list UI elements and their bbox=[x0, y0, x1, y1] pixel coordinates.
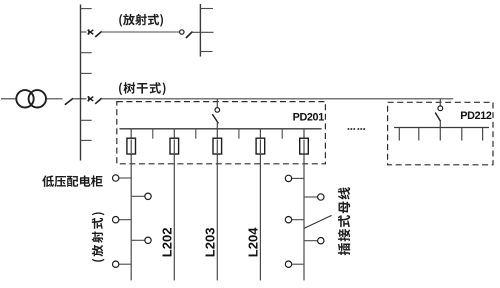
trunk line (树干式) wire bbox=[101, 98, 453, 100]
spare way tick bbox=[281, 129, 283, 139]
fuse + outgoing line (L205 feeder) bbox=[300, 129, 309, 281]
fuse + outgoing line (L204 feeder) bbox=[256, 129, 265, 281]
label low-voltage distribution cabinet bbox=[42, 175, 102, 187]
outgoing way tick bbox=[482, 128, 484, 141]
leader line to busway label bbox=[304, 215, 332, 228]
outgoing way tick bbox=[461, 128, 463, 141]
switch blade (slash) bbox=[186, 32, 193, 38]
plug-in tap circle bbox=[304, 194, 324, 200]
plug-in tap circle bbox=[113, 175, 132, 181]
wire bbox=[216, 123, 218, 129]
outgoing way tick bbox=[398, 128, 400, 141]
plug-in tap circle bbox=[131, 193, 151, 199]
distribution busbar (vertical, radial feeder) with ticks bbox=[200, 4, 213, 57]
wire bbox=[81, 31, 87, 33]
plug-in tap circle bbox=[304, 238, 324, 244]
panel PD201 dashed enclosure bbox=[117, 102, 326, 164]
spare way tick bbox=[195, 129, 197, 139]
plug-in tap circle bbox=[285, 217, 304, 223]
plug-in tap circle bbox=[285, 175, 304, 181]
disconnect switch QS1 (slash) bbox=[65, 98, 87, 105]
wire bbox=[101, 31, 179, 33]
wire bbox=[439, 121, 441, 128]
plug-in tap circle bbox=[113, 261, 132, 267]
switch blade bbox=[435, 113, 440, 122]
fuse + outgoing line (L203 feeder) bbox=[213, 129, 222, 281]
ellipsis dots (more panels) bbox=[348, 128, 365, 130]
svg-text:L204: L204 bbox=[245, 227, 260, 257]
switch blade (slash) bbox=[95, 31, 102, 37]
label (radial type, rotated) bbox=[92, 212, 105, 261]
plug-in tap circle bbox=[285, 261, 304, 267]
plug-in tap circle bbox=[113, 217, 132, 223]
spare way tick bbox=[152, 129, 154, 139]
PD201 horizontal busbar bbox=[120, 128, 322, 130]
svg-text:PD212: PD212 bbox=[460, 110, 492, 122]
panel PD212 dashed enclosure bbox=[388, 102, 493, 165]
contact circle bbox=[215, 108, 220, 113]
svg-text:L202: L202 bbox=[159, 228, 174, 258]
outgoing way tick bbox=[439, 128, 441, 141]
switch blade bbox=[212, 114, 218, 123]
contact circle bbox=[438, 106, 443, 111]
switch blade (slash) bbox=[95, 98, 102, 104]
plug-in tap circle bbox=[131, 237, 151, 243]
wire bbox=[216, 99, 218, 108]
label plug-in busway (rotated) bbox=[338, 187, 350, 255]
wire bbox=[192, 31, 214, 33]
label (radial type) bbox=[119, 14, 163, 27]
fuse + outgoing line (L201 feeder) bbox=[127, 129, 136, 281]
fuse + outgoing line (L202 feeder) bbox=[170, 129, 179, 281]
transformer T (two overlapping circles) bbox=[1, 90, 62, 107]
contact circle bbox=[180, 30, 184, 34]
svg-text:PD201: PD201 bbox=[293, 112, 325, 124]
low-voltage switchboard busbar (vertical) with stub ticks bbox=[81, 5, 92, 161]
circuit breaker QF2 (x symbol) bbox=[88, 96, 94, 101]
PD212 horizontal busbar bbox=[394, 127, 489, 129]
wire bbox=[439, 99, 441, 106]
circuit breaker QF1 (x symbol) bbox=[88, 29, 94, 34]
outgoing way tick bbox=[418, 128, 420, 141]
svg-text:L203: L203 bbox=[202, 228, 217, 258]
label (trunk type) bbox=[119, 82, 165, 95]
spare way tick bbox=[238, 129, 240, 139]
